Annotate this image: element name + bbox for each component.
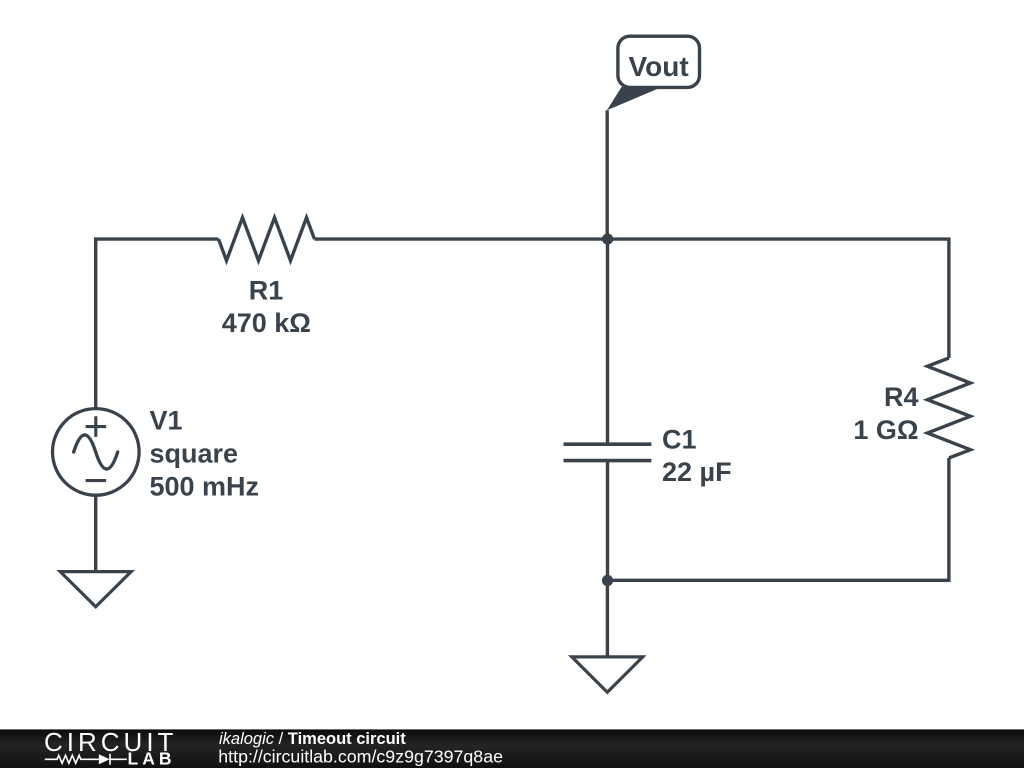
ground (C1): [572, 657, 643, 692]
svg-text:R1: R1: [249, 275, 284, 305]
svg-text:R4: R4: [884, 382, 919, 412]
svg-text:500 mHz: 500 mHz: [150, 472, 260, 502]
svg-text:http://circuitlab.com/c9z9g739: http://circuitlab.com/c9z9g7397q8ae: [218, 746, 503, 766]
svg-text:square: square: [150, 439, 239, 469]
label R4 value: [853, 382, 918, 445]
capacitor C1: [564, 444, 652, 460]
wire bottom node to ground: [606, 580, 609, 657]
node junction top: [602, 234, 613, 245]
wire top: R1 to top-right corner down to R4: [315, 239, 949, 358]
footer bar: [0, 729, 1024, 768]
resistor R1: [219, 218, 315, 261]
wire bottom-right: R4 down and left to junction: [608, 458, 949, 580]
label V1 value: [150, 406, 260, 502]
node junction bottom: [602, 575, 613, 586]
voltage source V1: [53, 409, 140, 496]
resistor R4: [927, 358, 970, 458]
wire V1 to ground: [94, 495, 97, 571]
svg-text:22 µF: 22 µF: [662, 457, 732, 487]
label C1 value: [662, 424, 732, 487]
svg-text:ikalogic / Timeout circuit: ikalogic / Timeout circuit: [219, 730, 406, 748]
wire C1 to bottom node: [606, 461, 609, 581]
wire Vout to top node: [606, 110, 609, 239]
ground (V1): [60, 572, 131, 607]
svg-text:470 kΩ: 470 kΩ: [222, 308, 311, 338]
logo resistor-diode doodle: [45, 754, 127, 765]
wire top node to C1: [606, 239, 609, 444]
svg-text:1 GΩ: 1 GΩ: [853, 415, 918, 445]
svg-text:Vout: Vout: [629, 51, 689, 82]
net flag Vout: [607, 36, 700, 110]
svg-text:LAB: LAB: [128, 749, 176, 768]
svg-text:C1: C1: [662, 424, 697, 454]
svg-text:V1: V1: [150, 406, 183, 436]
label R1 value: [222, 275, 311, 338]
wire left: top-left corner from V1 up to R1: [96, 239, 219, 409]
